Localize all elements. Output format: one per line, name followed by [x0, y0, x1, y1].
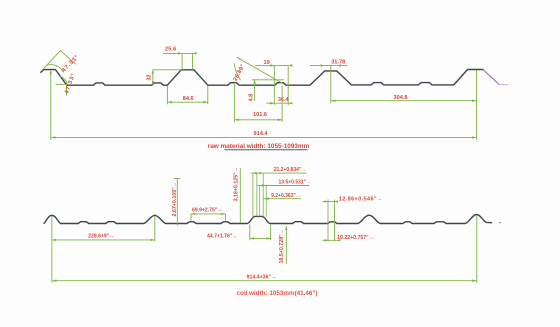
- dim 25.6 extension right: [192, 53, 194, 69]
- dim 21.2 arrow a: [253, 172, 257, 175]
- dim 13.5 arrow b: [263, 184, 267, 187]
- dim 9.2 line: [263, 198, 301, 200]
- dim 32 arrow bottom: [152, 81, 155, 85]
- svg-text:19: 19: [263, 60, 269, 66]
- dim 304.8 arrow left: [331, 100, 335, 103]
- dim 13.5 arrow a: [260, 184, 264, 187]
- cluster extension v5: [265, 186, 267, 217]
- angle 28.89 arc: [234, 63, 240, 80]
- dim 914.4+36 extension right: [476, 215, 478, 283]
- dim 101.6 arrow right: [278, 119, 282, 122]
- dim 228.6 extension rib1 center: [51, 216, 53, 283]
- svg-text:36.4: 36.4: [278, 97, 290, 103]
- dim 304.8 arrow right: [472, 100, 476, 103]
- svg-text:12.86+0.546"→: 12.86+0.546"→: [339, 196, 383, 202]
- dim 36.4 line: [267, 102, 293, 104]
- dim 914.4+36 line: [52, 280, 477, 282]
- dim 84.6 extension right: [207, 86, 209, 105]
- dim 44.7 arrow right: [266, 237, 270, 240]
- svg-text:raw material width: 1055-1093m: raw material width: 1055-1093mm: [208, 143, 310, 150]
- dim 32 ref line at rib top: [153, 69, 182, 71]
- dim 31.78 line: [310, 65, 347, 67]
- svg-text:4.8: 4.8: [248, 94, 254, 102]
- svg-text:44.7+1.76"→: 44.7+1.76"→: [207, 234, 237, 240]
- dim 25.6 extension left: [181, 53, 183, 69]
- angle ref horizontal at web bottom: [56, 83, 68, 85]
- arrow up at flange: [50, 70, 53, 74]
- dim 2.67 top tick: [174, 178, 181, 180]
- dim 19 arrow left: [270, 64, 274, 67]
- dim 19.22 arrow a: [325, 239, 328, 242]
- svg-text:coil width: 1053mm(41.46"): coil width: 1053mm(41.46"): [236, 290, 317, 297]
- dim 25.6 arrow right: [193, 52, 197, 55]
- svg-text:228.6+9"→: 228.6+9"→: [88, 234, 114, 240]
- svg-text:19.22+0.757"→: 19.22+0.757"→: [337, 235, 374, 241]
- svg-text:304.8: 304.8: [394, 95, 408, 101]
- dim 25.6 line: [163, 52, 197, 54]
- angle arc upper: [47, 65, 64, 73]
- dim 84.6 arrow left: [168, 101, 172, 104]
- dim 84.6 line: [167, 101, 207, 103]
- bottom panel profile polyline: [44, 215, 492, 224]
- cluster extension v3: [259, 186, 261, 217]
- dim 228.6 extension rib2 center: [154, 216, 156, 242]
- dim 2.67 vertical line: [176, 179, 178, 226]
- svg-text:13.5+0.531"→: 13.5+0.531"→: [279, 180, 312, 186]
- svg-text:3.18+0.125"→: 3.18+0.125"→: [234, 167, 240, 201]
- cluster extension v2: [256, 173, 258, 217]
- dim 69.9 end tick right: [224, 214, 226, 221]
- angle 28.89 slope construction line: [237, 57, 284, 84]
- svg-text:914.4: 914.4: [254, 131, 269, 137]
- dim 44.7 line: [250, 237, 271, 239]
- dim 228.6 arrow right: [151, 239, 155, 242]
- dim 19 extension a: [273, 65, 275, 105]
- dim 19.22 arrow b: [337, 239, 340, 242]
- top profile purple tail: [499, 84, 508, 86]
- dim 914.4+36 arrow left: [52, 279, 56, 282]
- dim 101.6 extension left: [233, 84, 235, 122]
- dim 32 arrow top: [152, 70, 155, 74]
- dim 25.6 arrow left: [178, 52, 182, 55]
- dim 21.2 arrow b: [259, 172, 263, 175]
- dim 19 extension b: [287, 65, 289, 105]
- dim 21.2 line: [251, 172, 307, 174]
- dim 228.6 line: [52, 239, 155, 241]
- svg-text:31.78: 31.78: [331, 60, 345, 66]
- dim 19 line: [255, 64, 288, 66]
- dim 101.6 line: [234, 119, 282, 121]
- top panel profile polyline: [41, 70, 483, 86]
- extension line left vertical with arrow: [50, 71, 52, 140]
- angle construction line right of apex: [60, 51, 75, 65]
- dim 36.4 arrow right: [288, 102, 292, 105]
- dim 228.6 arrow left: [52, 239, 56, 242]
- svg-text:101.6: 101.6: [253, 112, 267, 118]
- dim 69.9 line: [191, 213, 225, 215]
- dim 69.9 arrow right: [221, 213, 225, 216]
- dim 84.6 extension left: [166, 86, 168, 105]
- dim 914.4+36 arrow right: [472, 279, 476, 282]
- dim 12.86 line: [322, 201, 337, 203]
- dim 13.5 line: [258, 185, 310, 187]
- dim 44.7 arrow left: [250, 237, 254, 240]
- dim 18.5 vertical line: [285, 226, 287, 264]
- lower angle vertical tick: [66, 85, 68, 96]
- svg-text:84.6: 84.6: [183, 96, 194, 102]
- svg-text:21.2+0.834"→: 21.2+0.834"→: [274, 167, 307, 173]
- dim 4.8 arrow: [253, 80, 256, 83]
- dim 18.5 arrow top: [285, 226, 288, 230]
- angle arc lower: [59, 76, 67, 84]
- svg-text:9.2+0.362"→: 9.2+0.362"→: [271, 193, 301, 199]
- dim 31.78 arrow right: [337, 64, 341, 67]
- svg-text:25.6: 25.6: [165, 47, 177, 53]
- dim 4.8 ref horizontal: [252, 79, 284, 81]
- dim 914.4 arrow right: [472, 136, 476, 139]
- dim 914.4 extension right: [476, 70, 478, 140]
- dim 44.7 extension left: [249, 225, 251, 241]
- dim 4.8 vertical: [254, 80, 256, 101]
- dim 12.86 extension left: [327, 200, 329, 242]
- svg-text:914.4+36"→: 914.4+36"→: [247, 275, 276, 281]
- dim 84.6 arrow right: [203, 101, 207, 104]
- dim 101.6 arrow left: [235, 119, 239, 122]
- dim 44.7 extension right: [270, 225, 272, 241]
- svg-text:18.5+0.728"→: 18.5+0.728"→: [279, 229, 285, 263]
- dim 12.86 arrow b: [335, 200, 338, 203]
- dim 9.2 arrow b: [266, 197, 270, 200]
- raw material width underline: [225, 149, 308, 151]
- svg-text:32: 32: [146, 75, 152, 81]
- svg-text:69.9+2.75"→: 69.9+2.75"→: [192, 208, 222, 214]
- dim 914.4 arrow left: [51, 136, 55, 139]
- dim 9.2 arrow a: [265, 197, 269, 200]
- dim 31.78 arrow left: [321, 64, 325, 67]
- dim 19 arrow right: [288, 64, 292, 67]
- cluster extension v1: [252, 173, 254, 217]
- dim 19.22 line: [322, 239, 339, 241]
- top profile purple underlap slope: [483, 70, 498, 84]
- dim 914.4 line: [51, 137, 477, 139]
- dim 36.4 arrow left: [270, 102, 274, 105]
- dim 3.18 vertical line: [239, 168, 241, 223]
- angle construction line left: [42, 51, 61, 71]
- dim 12.86 arrow a: [325, 200, 328, 203]
- dim 12.86 extension right: [334, 200, 336, 242]
- dim 69.9 arrow left: [191, 213, 195, 216]
- dim 69.9 end tick left: [190, 214, 192, 221]
- dim 32 vertical line: [152, 70, 154, 85]
- svg-text:2.67+0.105"→: 2.67+0.105"→: [172, 182, 178, 216]
- cluster extension v4: [262, 173, 264, 216]
- dim 304.8 extension left rib2 center: [330, 66, 332, 104]
- dim 304.8 line: [331, 100, 477, 102]
- bottom profile continuation dot: [499, 222, 501, 224]
- dim 101.6 extension right: [281, 86, 283, 122]
